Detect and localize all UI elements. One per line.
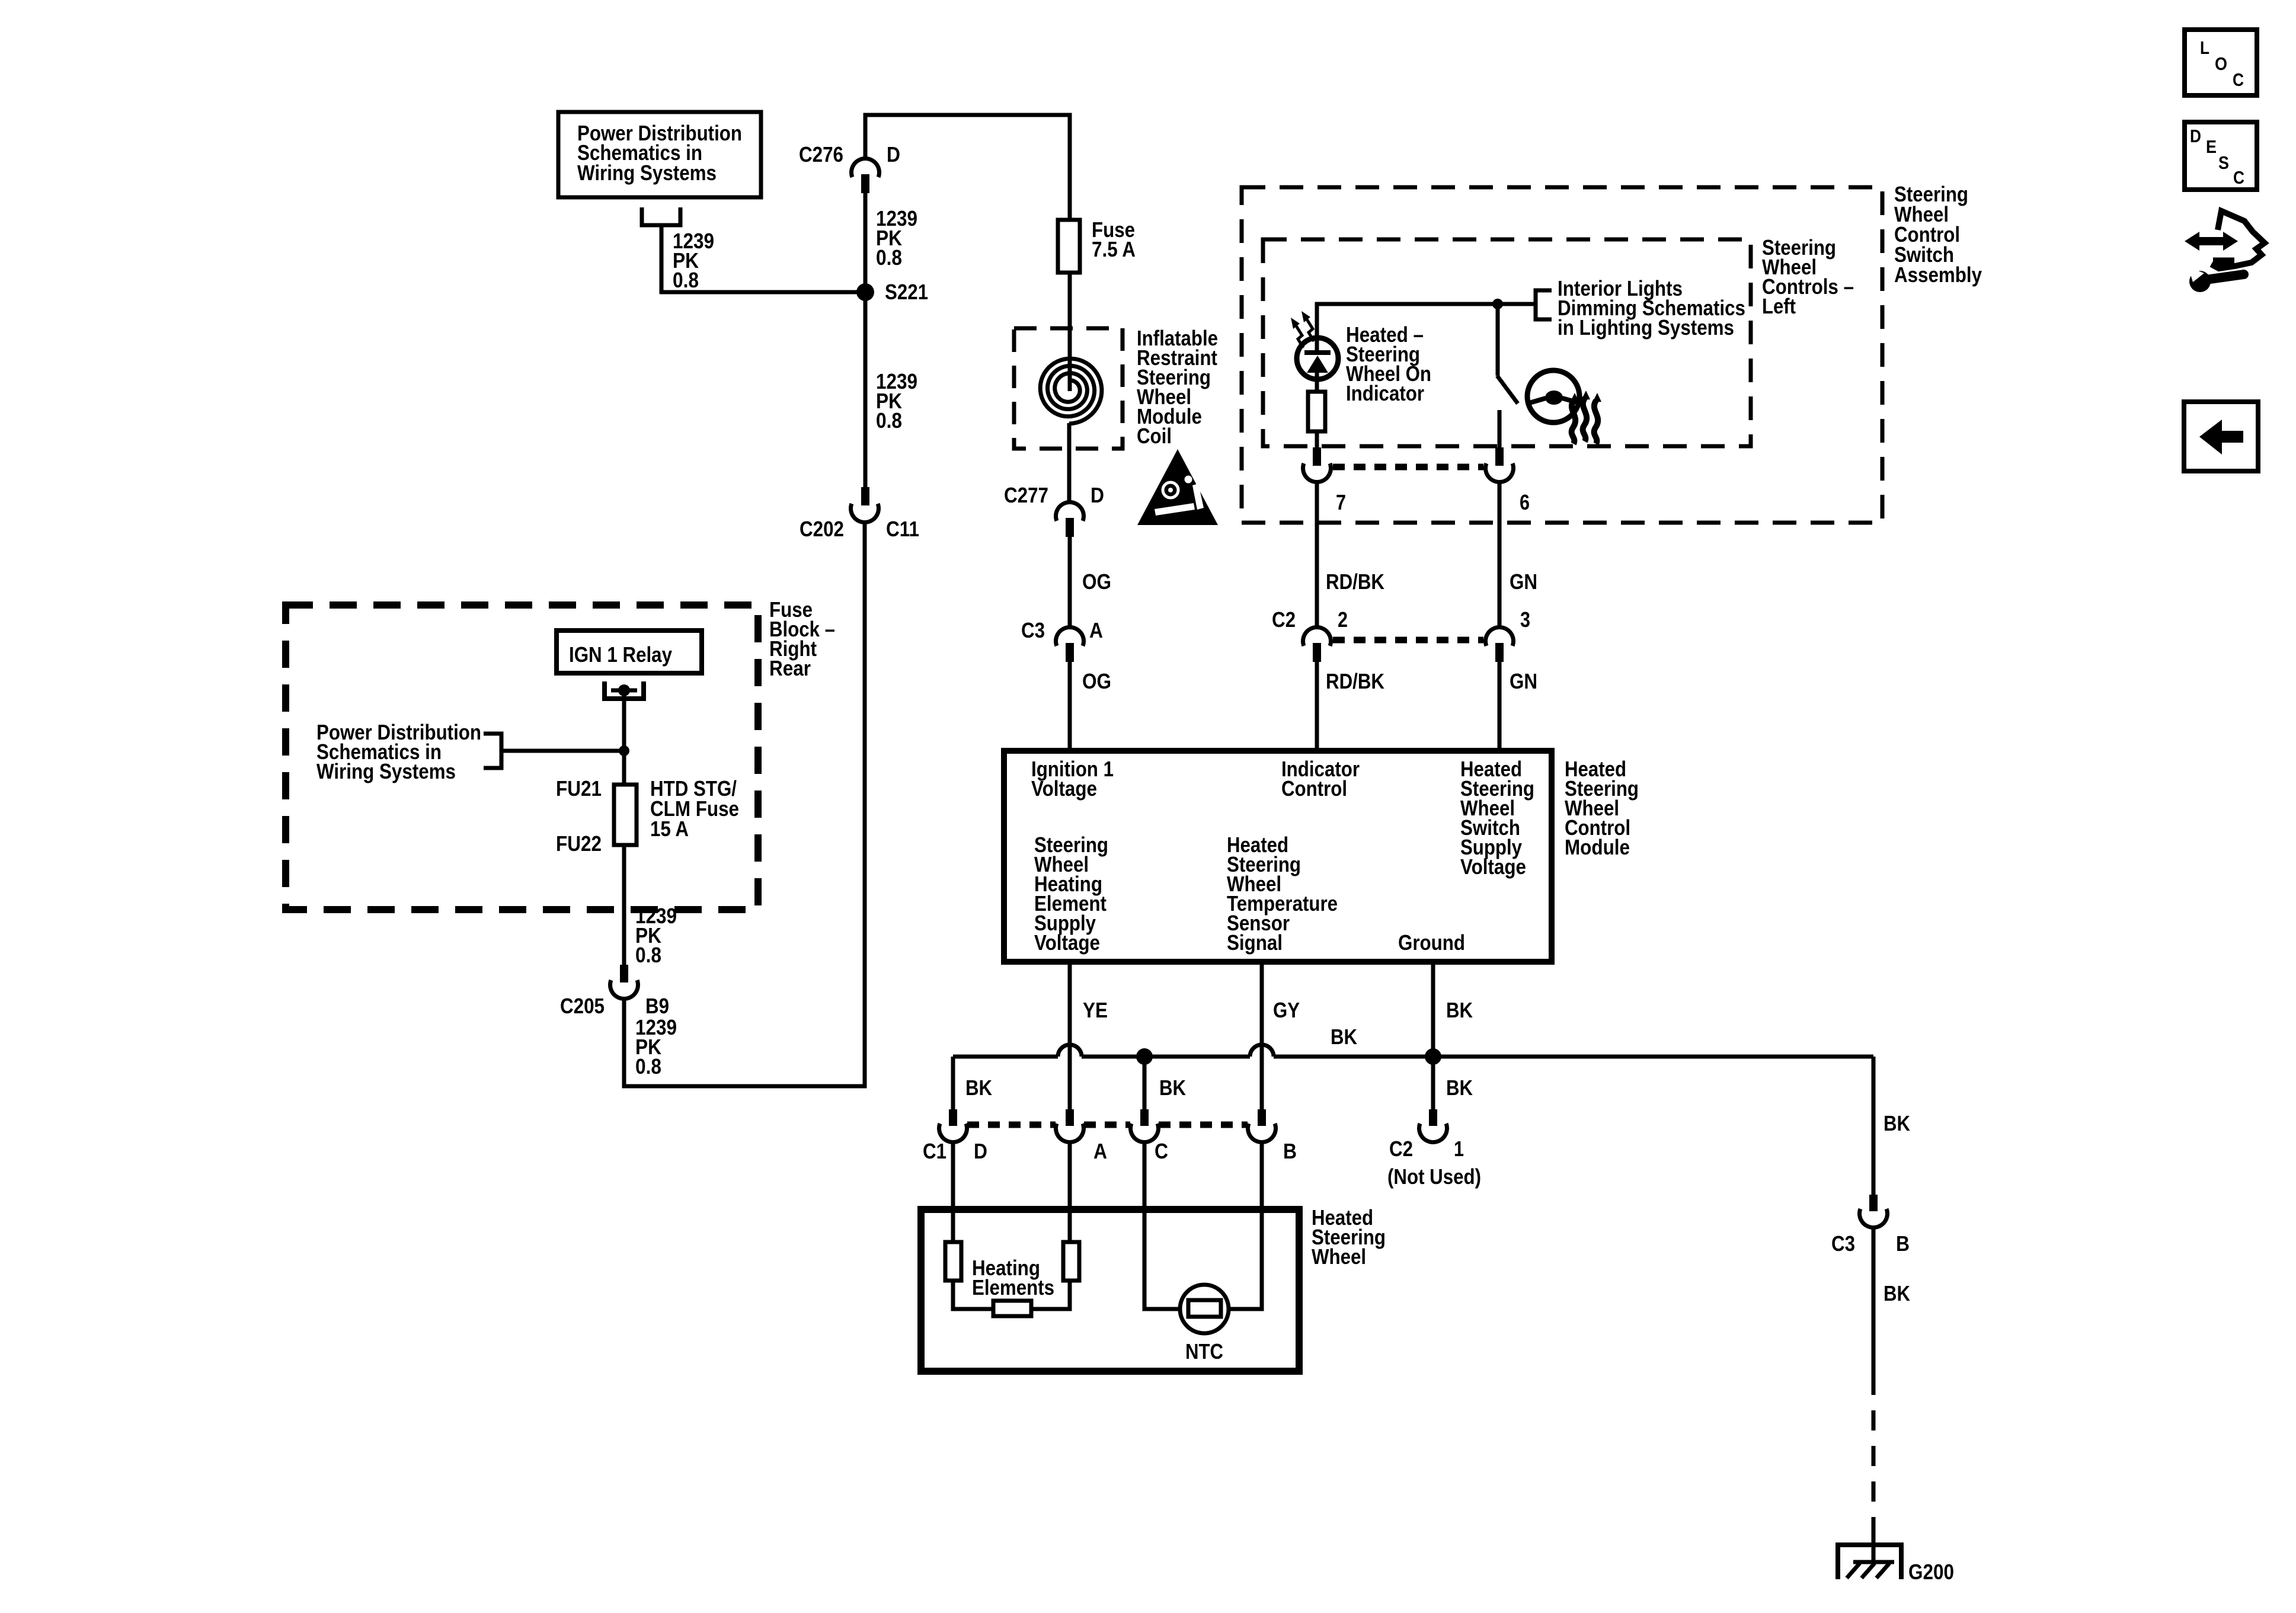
label D (C1 pin) bbox=[974, 1139, 987, 1163]
svg-text:Wiring Systems: Wiring Systems bbox=[577, 161, 717, 185]
wire C277 to C3 bbox=[1068, 537, 1072, 627]
svg-text:C202: C202 bbox=[800, 517, 844, 541]
svg-text:(Not Used): (Not Used) bbox=[1387, 1164, 1481, 1189]
svg-text:Voltage: Voltage bbox=[1031, 776, 1097, 801]
LED indicator circle bbox=[1297, 338, 1338, 379]
label C (C1 pin) bbox=[1155, 1139, 1168, 1163]
connector C276 terminal stub bbox=[861, 174, 869, 193]
svg-text:GN: GN bbox=[1510, 569, 1537, 594]
label C3 bbox=[1021, 618, 1045, 642]
wire bus left end down to connector D bbox=[951, 1057, 955, 1111]
dashed link pins 7-6 bbox=[1333, 464, 1483, 471]
wire resistor to pin 7 bbox=[1315, 431, 1319, 450]
label 1 (C2 pin) bbox=[1454, 1137, 1464, 1161]
label B9 (C205 pin) bbox=[645, 994, 669, 1018]
svg-text:C1: C1 bbox=[923, 1139, 946, 1163]
module pin label ignition 1 voltage bbox=[1031, 757, 1114, 801]
wire C3 B down solid bbox=[1872, 1227, 1876, 1375]
label C11 bbox=[886, 517, 919, 541]
wire label RD/BK (below C2) bbox=[1326, 669, 1384, 693]
wire BK ground from module bbox=[1431, 962, 1435, 1057]
svg-text:O: O bbox=[2215, 53, 2227, 74]
text inflatable restraint steering wheel module coil bbox=[1137, 326, 1218, 448]
svg-text:RD/BK: RD/BK bbox=[1326, 669, 1384, 693]
connector C1 pin A cup bbox=[1056, 1124, 1084, 1142]
connector C2 pin 2 stub bbox=[1313, 643, 1321, 662]
label FU22 bbox=[556, 831, 602, 856]
wire label BK (bus) bbox=[1331, 1025, 1357, 1049]
label steering wheel control switch assembly bbox=[1894, 182, 1982, 287]
module pin label indicator control bbox=[1281, 757, 1360, 801]
wire label 1239 PK 0.8 (above S221) bbox=[876, 206, 917, 270]
text interior lights dimming schematics in lighting systems bbox=[1558, 276, 1745, 340]
svg-text:OG: OG bbox=[1082, 669, 1111, 693]
DESC icon box bbox=[2185, 122, 2257, 190]
svg-text:C3: C3 bbox=[1831, 1231, 1855, 1256]
off-page bracket under power distribution box bbox=[642, 207, 680, 225]
LED cathode bar bbox=[1304, 335, 1331, 355]
switch lower contact wire bbox=[1498, 410, 1502, 450]
switch upper contact wire bbox=[1496, 304, 1500, 376]
wire label BK (left drop) bbox=[965, 1076, 992, 1100]
text power distribution schematics in wiring systems (fuse block) bbox=[316, 720, 481, 783]
label D (C276 pin) bbox=[887, 142, 900, 167]
svg-text:C: C bbox=[2233, 69, 2244, 90]
connector pin 7 cup bbox=[1303, 463, 1331, 482]
label A (C1 pin) bbox=[1093, 1139, 1107, 1163]
bracket to power distribution reference bbox=[484, 734, 501, 768]
svg-text:B: B bbox=[1896, 1231, 1910, 1256]
dashed box: steering wheel controls - left bbox=[1263, 239, 1751, 446]
wire label 1239 PK 0.8 (above C205) bbox=[635, 904, 677, 967]
svg-text:GY: GY bbox=[1273, 998, 1300, 1022]
label FU21 bbox=[556, 776, 602, 801]
wire C202 down, left, up to C205 bbox=[624, 521, 865, 1086]
svg-text:7.5 A: 7.5 A bbox=[1092, 237, 1136, 261]
wire fuse FU22 down to C205 bbox=[622, 845, 626, 967]
coil spiral (clockspring) bbox=[1040, 332, 1102, 501]
label heated steering wheel control module bbox=[1565, 757, 1639, 859]
svg-text:B9: B9 bbox=[645, 994, 669, 1018]
wire element2 to series resistor bbox=[1031, 1281, 1070, 1309]
svg-text:S221: S221 bbox=[885, 280, 928, 304]
svg-text:OG: OG bbox=[1082, 569, 1111, 594]
svg-text:in Lighting Systems: in Lighting Systems bbox=[1558, 315, 1734, 340]
connector pin 7 stub bbox=[1313, 447, 1321, 466]
connector C202/C11 cup bbox=[850, 504, 878, 522]
svg-text:YE: YE bbox=[1083, 998, 1108, 1022]
label 7 bbox=[1336, 490, 1346, 514]
connector C205 stub bbox=[620, 965, 628, 982]
module box: heated steering wheel control module bbox=[1004, 751, 1552, 962]
label IGN 1 Relay bbox=[569, 642, 672, 667]
heat wave icons bbox=[1570, 391, 1601, 444]
svg-text:Voltage: Voltage bbox=[1034, 930, 1100, 955]
svg-text:Control: Control bbox=[1281, 776, 1347, 801]
wire label RD/BK (above C2) bbox=[1326, 569, 1384, 594]
ground G200 symbol bbox=[1838, 1529, 1901, 1579]
wire C2 pin3 to module switch supply bbox=[1498, 662, 1502, 751]
svg-text:Signal: Signal bbox=[1227, 930, 1283, 955]
connector C1 pin D cup bbox=[939, 1124, 967, 1142]
connector C277 arc bbox=[1056, 503, 1084, 521]
wire C2 pin2 to module indicator control bbox=[1315, 662, 1319, 751]
airbag warning triangle icon bbox=[1137, 449, 1218, 525]
svg-text:C2: C2 bbox=[1272, 607, 1296, 632]
svg-text:A: A bbox=[1089, 618, 1103, 642]
heating element 1 resistor bbox=[945, 1242, 961, 1281]
label C1 bbox=[923, 1139, 946, 1163]
module pin label heated steering wheel switch supply voltage bbox=[1460, 757, 1534, 879]
svg-text:Assembly: Assembly bbox=[1894, 263, 1982, 287]
label C3 (pin B) bbox=[1831, 1231, 1855, 1256]
connector pin 6 stub bbox=[1495, 447, 1504, 466]
svg-text:1: 1 bbox=[1454, 1137, 1464, 1161]
indicator resistor bbox=[1308, 392, 1325, 431]
module pin label heated steering wheel temperature sensor signal bbox=[1227, 833, 1338, 955]
svg-text:BK: BK bbox=[965, 1076, 992, 1100]
dashed link C2 pins 2-3 bbox=[1333, 637, 1483, 644]
junction dot bus at C wire bbox=[1136, 1048, 1153, 1065]
svg-text:Elements: Elements bbox=[972, 1275, 1054, 1300]
label Fuse 7.5 A bbox=[1092, 217, 1136, 261]
wire connector C to NTC bbox=[1144, 1142, 1182, 1309]
relay output pin symbol bbox=[605, 681, 644, 699]
NTC sensor resistor bbox=[1188, 1300, 1221, 1317]
wire C3 B down dashed to G200 bbox=[1872, 1375, 1876, 1529]
svg-text:FU22: FU22 bbox=[556, 831, 602, 856]
wire C3 to module ignition 1 voltage bbox=[1068, 662, 1072, 751]
label C202 bbox=[800, 517, 844, 541]
wire relay to fuse FU21 bbox=[622, 690, 626, 785]
wire label BK (C2-1 drop) bbox=[1446, 1076, 1473, 1100]
dashed box: steering wheel control switch assembly bbox=[1242, 187, 1882, 523]
wire label 1239 PK 0.8 (below S221) bbox=[876, 369, 917, 433]
connector C1 pin C stub bbox=[1140, 1109, 1149, 1126]
label (Not Used) bbox=[1387, 1164, 1481, 1189]
connector C3 pin B stub bbox=[1869, 1195, 1878, 1211]
connector C205 cup bbox=[610, 980, 638, 998]
dashed box: fuse block right rear bbox=[286, 605, 758, 910]
svg-text:Indicator: Indicator bbox=[1346, 381, 1424, 405]
wire YE heating element supply bbox=[1068, 962, 1072, 1111]
svg-text:D: D bbox=[1091, 483, 1104, 507]
label C2 bbox=[1272, 607, 1296, 632]
svg-text:C277: C277 bbox=[1004, 483, 1048, 507]
connector pin 6 cup bbox=[1486, 463, 1514, 482]
svg-text:C: C bbox=[2233, 167, 2244, 188]
reference box: Power Distribution Schematics in Wiring Systems bbox=[558, 112, 761, 197]
label D (C277 pin) bbox=[1091, 483, 1104, 507]
heating element 2 resistor bbox=[1063, 1242, 1079, 1281]
svg-text:Wiring Systems: Wiring Systems bbox=[316, 759, 456, 783]
label C277 bbox=[1004, 483, 1048, 507]
connector C276 arc bbox=[851, 159, 879, 177]
connector C3 pin B cup bbox=[1860, 1209, 1888, 1227]
ground bus horizontal wire bbox=[953, 1045, 1873, 1057]
connector C202/C11 terminal stub bbox=[861, 487, 869, 505]
dashed box: inflatable restraint steering wheel module coil bbox=[1014, 328, 1123, 449]
fuse 7.5 A body bbox=[1058, 220, 1080, 273]
wire label GN (below C2) bbox=[1510, 669, 1537, 693]
component view icon (arrow, part outline, wrench) bbox=[2185, 211, 2265, 292]
svg-text:Ground: Ground bbox=[1398, 930, 1465, 955]
svg-text:3: 3 bbox=[1520, 607, 1530, 632]
svg-text:NTC: NTC bbox=[1185, 1339, 1223, 1364]
svg-text:D: D bbox=[974, 1139, 987, 1163]
svg-text:C11: C11 bbox=[886, 517, 919, 541]
label S221 bbox=[885, 280, 928, 304]
label 3 (C2 pin) bbox=[1520, 607, 1530, 632]
wire LED to resistor bbox=[1315, 373, 1319, 394]
svg-text:0.8: 0.8 bbox=[876, 245, 902, 270]
bracket to interior lights dimming reference bbox=[1536, 290, 1552, 319]
svg-text:C2: C2 bbox=[1389, 1137, 1413, 1161]
label fuse block right rear bbox=[769, 597, 835, 680]
splice S221 dot bbox=[856, 283, 874, 301]
wire connector D to heating element 1 bbox=[951, 1142, 955, 1242]
svg-text:Left: Left bbox=[1762, 294, 1796, 318]
svg-text:G200: G200 bbox=[1908, 1560, 1954, 1584]
steering wheel icon bbox=[1527, 370, 1579, 423]
label 2 (C2 pin) bbox=[1338, 607, 1348, 632]
connector C3 pin A terminal stub bbox=[1066, 643, 1074, 662]
box: heated steering wheel bbox=[921, 1209, 1299, 1371]
svg-text:FU21: FU21 bbox=[556, 776, 602, 801]
wire label GN (above C2) bbox=[1510, 569, 1537, 594]
svg-text:0.8: 0.8 bbox=[635, 943, 661, 967]
wire S221 down to C202 bbox=[864, 292, 868, 489]
module pin label steering wheel heating element supply voltage bbox=[1034, 833, 1108, 955]
wire branch to bracket bbox=[501, 749, 624, 753]
wire label BK (C drop) bbox=[1159, 1076, 1186, 1100]
connector C3 pin A arc bbox=[1056, 628, 1084, 646]
LED anode triangle bbox=[1307, 356, 1328, 373]
connector C2 pin 3 stub bbox=[1495, 643, 1504, 662]
svg-text:D: D bbox=[2190, 126, 2201, 146]
wire bus to connector C bbox=[1143, 1057, 1147, 1111]
svg-text:BK: BK bbox=[1884, 1281, 1910, 1305]
label heated steering wheel on indicator bbox=[1346, 322, 1431, 405]
wire label GY bbox=[1273, 998, 1300, 1022]
dashed links C1 pins D-A-C-B bbox=[967, 1122, 1248, 1128]
label NTC bbox=[1185, 1339, 1223, 1364]
connector C2 pin 1 cup bbox=[1419, 1124, 1447, 1142]
svg-text:Rear: Rear bbox=[769, 656, 811, 680]
wire pin 6 to C2 pin 3 bbox=[1498, 481, 1502, 627]
wire bus to connector C2 pin 1 bbox=[1431, 1057, 1435, 1111]
label steering wheel controls - left bbox=[1762, 235, 1854, 318]
wire label OG (below C3) bbox=[1082, 669, 1111, 693]
wire label BK (module ground) bbox=[1446, 998, 1473, 1022]
label B (C1 pin) bbox=[1283, 1139, 1297, 1163]
label A (C3 pin) bbox=[1089, 618, 1103, 642]
svg-text:7: 7 bbox=[1336, 490, 1346, 514]
label C205 bbox=[560, 994, 605, 1018]
svg-text:Voltage: Voltage bbox=[1460, 854, 1526, 879]
NTC sensor circle bbox=[1180, 1285, 1229, 1333]
svg-text:C205: C205 bbox=[560, 994, 605, 1018]
connector C2 pin 3 arc bbox=[1486, 628, 1514, 646]
svg-text:Module: Module bbox=[1565, 835, 1630, 859]
wire label OG (above C3) bbox=[1082, 569, 1111, 594]
wire connector B to NTC bbox=[1226, 1142, 1262, 1309]
wire label 1239 PK 0.8 (below C205) bbox=[635, 1015, 677, 1078]
connector C1 pin A stub bbox=[1066, 1109, 1074, 1126]
label heated steering wheel bbox=[1312, 1205, 1386, 1269]
label C276 bbox=[799, 142, 843, 167]
connector C1 pin C cup bbox=[1131, 1124, 1159, 1142]
svg-text:C276: C276 bbox=[799, 142, 843, 167]
connector C2 pin 2 arc bbox=[1303, 628, 1331, 646]
svg-text:E: E bbox=[2206, 136, 2217, 157]
svg-text:Wheel: Wheel bbox=[1312, 1244, 1366, 1269]
svg-text:BK: BK bbox=[1159, 1076, 1186, 1100]
wire top-left corner run C276 to fuse bbox=[865, 115, 1070, 220]
connector C277 terminal stub bbox=[1066, 518, 1074, 537]
wire pin 7 to C2 pin 2 bbox=[1315, 481, 1319, 627]
svg-text:A: A bbox=[1093, 1139, 1107, 1163]
wire bus right end down to C3 pin B bbox=[1872, 1057, 1876, 1197]
svg-text:BK: BK bbox=[1446, 1076, 1473, 1100]
connector C1 pin B cup bbox=[1248, 1124, 1276, 1142]
wire element1 to series resistor bbox=[953, 1281, 993, 1309]
connector C1 pin B stub bbox=[1258, 1109, 1266, 1126]
svg-text:C: C bbox=[1155, 1139, 1168, 1163]
junction dot on indicator rail bbox=[1492, 299, 1503, 309]
wire connector A to heating element 2 bbox=[1068, 1142, 1072, 1242]
wire from bracket down to S221 level bbox=[660, 225, 865, 294]
module pin label ground bbox=[1398, 930, 1465, 955]
svg-text:2: 2 bbox=[1338, 607, 1348, 632]
wire label BK (above C3 B) bbox=[1884, 1111, 1910, 1135]
back arrow icon box bbox=[2184, 402, 2258, 471]
label B (C3 pin) bbox=[1896, 1231, 1910, 1256]
text in power distribution box bbox=[577, 121, 742, 185]
junction dot bus at ground wire bbox=[1425, 1048, 1441, 1065]
label C2 (pin 1) bbox=[1389, 1137, 1413, 1161]
label 6 bbox=[1520, 490, 1530, 514]
LOC icon box bbox=[2185, 30, 2257, 95]
wire indicator top rail bbox=[1317, 304, 1536, 338]
IGN 1 Relay box bbox=[557, 631, 702, 673]
svg-text:GN: GN bbox=[1510, 669, 1537, 693]
svg-text:C3: C3 bbox=[1021, 618, 1045, 642]
wire C276 stub to S221 bbox=[864, 193, 868, 292]
svg-text:6: 6 bbox=[1520, 490, 1530, 514]
svg-text:D: D bbox=[887, 142, 900, 167]
connector C1 pin D stub bbox=[949, 1109, 957, 1126]
svg-text:0.8: 0.8 bbox=[635, 1054, 661, 1078]
svg-text:0.8: 0.8 bbox=[876, 408, 902, 433]
label heating elements bbox=[972, 1256, 1054, 1300]
wire label 1239 PK 0.8 (left of S221 feed) bbox=[673, 229, 714, 292]
wire label BK (below C3 B) bbox=[1884, 1281, 1910, 1305]
svg-text:Coil: Coil bbox=[1137, 424, 1172, 448]
svg-text:BK: BK bbox=[1446, 998, 1473, 1022]
junction dot relay branch bbox=[619, 745, 629, 756]
svg-text:L: L bbox=[2200, 37, 2209, 58]
wire GY temperature sensor signal bbox=[1260, 962, 1264, 1111]
svg-text:IGN 1 Relay: IGN 1 Relay bbox=[569, 642, 672, 667]
svg-text:B: B bbox=[1283, 1139, 1297, 1163]
series heating element resistor bbox=[993, 1301, 1031, 1316]
connector C2 pin 1 stub bbox=[1429, 1109, 1437, 1126]
HTD STG/CLM fuse body bbox=[614, 785, 637, 845]
svg-text:BK: BK bbox=[1884, 1111, 1910, 1135]
svg-text:RD/BK: RD/BK bbox=[1326, 569, 1384, 594]
svg-text:0.8: 0.8 bbox=[673, 268, 699, 292]
label HTD STG/ CLM Fuse 15 A bbox=[650, 776, 739, 841]
label G200 bbox=[1908, 1560, 1954, 1584]
wire fuse to coil bbox=[1068, 273, 1072, 332]
LED emission arrows bbox=[1291, 311, 1314, 348]
svg-text:BK: BK bbox=[1331, 1025, 1357, 1049]
switch blade bbox=[1497, 376, 1518, 404]
wire label YE bbox=[1083, 998, 1108, 1022]
svg-text:15 A: 15 A bbox=[650, 817, 689, 841]
svg-text:S: S bbox=[2218, 152, 2229, 173]
